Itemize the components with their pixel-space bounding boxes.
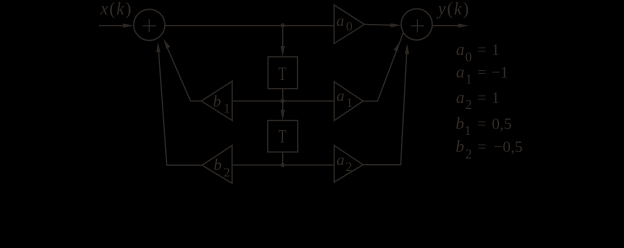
svg-text:=: = xyxy=(477,42,486,59)
svg-text:1: 1 xyxy=(346,95,353,110)
svg-text:b: b xyxy=(456,137,465,156)
svg-text:=: = xyxy=(477,90,486,107)
svg-text:2: 2 xyxy=(465,146,472,161)
svg-text:a: a xyxy=(336,13,344,30)
svg-text:b: b xyxy=(456,114,465,133)
svg-text:a: a xyxy=(456,88,465,107)
svg-text:1: 1 xyxy=(465,72,472,87)
svg-text:a: a xyxy=(456,62,465,81)
svg-text:0: 0 xyxy=(465,49,472,64)
svg-text:0,5: 0,5 xyxy=(492,116,512,133)
svg-text:2: 2 xyxy=(465,97,472,112)
svg-text:=: = xyxy=(477,116,486,133)
svg-text:1: 1 xyxy=(224,100,231,115)
svg-text:1: 1 xyxy=(492,90,500,107)
svg-text:x(k): x(k) xyxy=(99,0,132,18)
svg-text:a: a xyxy=(337,88,345,105)
svg-text:2: 2 xyxy=(346,159,353,174)
svg-text:1: 1 xyxy=(464,123,471,138)
svg-text:T: T xyxy=(279,128,287,148)
svg-text:b: b xyxy=(214,157,222,174)
svg-text:b: b xyxy=(213,94,221,111)
svg-text:=: = xyxy=(477,139,486,156)
svg-text:a: a xyxy=(456,40,465,59)
svg-text:−0,5: −0,5 xyxy=(494,139,523,156)
svg-text:−1: −1 xyxy=(491,64,508,81)
svg-text:=: = xyxy=(477,64,486,81)
svg-text:T: T xyxy=(279,65,287,85)
svg-text:a: a xyxy=(337,152,345,169)
svg-text:1: 1 xyxy=(492,42,500,59)
svg-text:2: 2 xyxy=(224,164,231,179)
svg-text:y(k): y(k) xyxy=(436,0,470,18)
svg-text:0: 0 xyxy=(346,19,353,34)
